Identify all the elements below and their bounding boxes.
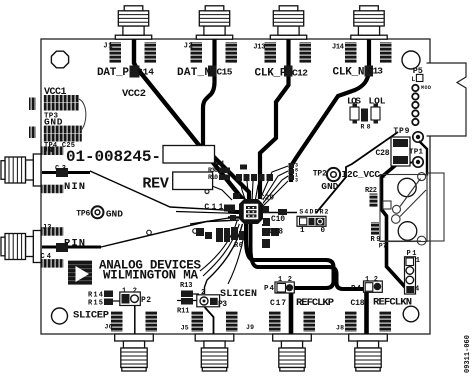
svg-text:LOL: LOL (369, 96, 386, 107)
svg-text:GND: GND (106, 209, 123, 220)
svg-text:J3: J3 (43, 224, 52, 232)
svg-text:L: L (412, 76, 416, 83)
svg-text:PIN: PIN (64, 238, 85, 250)
svg-text:CLK_P: CLK_P (255, 68, 287, 80)
svg-text:R22: R22 (365, 187, 377, 195)
svg-text:C18: C18 (269, 228, 283, 237)
svg-text:J5: J5 (181, 325, 189, 332)
svg-text:C18: C18 (351, 299, 365, 308)
svg-text:P2: P2 (141, 296, 151, 305)
svg-text:TP6: TP6 (76, 210, 90, 219)
svg-text:REFCLKN: REFCLKN (373, 297, 412, 309)
svg-text:P4: P4 (264, 285, 274, 293)
svg-text:C28: C28 (376, 149, 390, 158)
svg-text:2: 2 (201, 289, 205, 297)
svg-text:VCC2: VCC2 (122, 88, 146, 100)
svg-text:1 2: 1 2 (278, 276, 292, 284)
svg-text:R31: R31 (215, 160, 225, 167)
svg-text:J1: J1 (103, 43, 112, 51)
svg-text:J8: J8 (336, 325, 344, 332)
svg-text:TP9: TP9 (393, 127, 409, 136)
svg-text:R10: R10 (208, 174, 218, 181)
svg-text:1 2: 1 2 (365, 276, 378, 284)
svg-text:1: 1 (300, 227, 305, 235)
svg-text:I2C_VCC_: I2C_VCC_ (342, 169, 386, 180)
svg-text:J4: J4 (44, 147, 53, 155)
svg-text:CLK_N: CLK_N (333, 67, 365, 79)
svg-text:C20: C20 (260, 195, 274, 203)
svg-text:VCC1: VCC1 (44, 87, 67, 98)
svg-text:01-008245-: 01-008245- (66, 148, 161, 166)
svg-text:C17: C17 (270, 299, 286, 308)
svg-text:4: 4 (415, 286, 419, 294)
svg-text:P3: P3 (218, 300, 227, 309)
svg-text:1 2: 1 2 (122, 288, 137, 296)
svg-text:C13: C13 (368, 66, 383, 77)
svg-text:REFCLKP: REFCLKP (296, 297, 334, 309)
svg-text:R11: R11 (177, 308, 190, 316)
svg-text:R13: R13 (180, 282, 193, 290)
svg-text:S4DDR2: S4DDR2 (299, 209, 328, 216)
svg-text:MOD: MOD (421, 85, 431, 91)
svg-text:P5: P5 (413, 66, 423, 76)
svg-text:C12: C12 (292, 68, 308, 79)
svg-text:TP2: TP2 (313, 170, 327, 179)
svg-text:P4: P4 (351, 285, 361, 293)
svg-text:SLICEP: SLICEP (73, 310, 109, 322)
svg-text:J14: J14 (332, 44, 344, 52)
svg-text:DAT_N: DAT_N (177, 67, 211, 79)
svg-text:R6: R6 (234, 242, 243, 250)
svg-text:J13: J13 (253, 44, 265, 52)
svg-text:C15: C15 (217, 67, 233, 78)
svg-text:C11: C11 (204, 203, 223, 212)
svg-text:REV: REV (142, 176, 169, 193)
svg-text:J2: J2 (184, 43, 193, 51)
svg-text:J6: J6 (105, 324, 113, 331)
svg-text:R30: R30 (208, 167, 218, 174)
svg-text:SLICEN: SLICEN (220, 289, 257, 300)
svg-text:R15: R15 (88, 300, 103, 308)
svg-text:P7: P7 (379, 243, 387, 250)
svg-text:0: 0 (321, 227, 326, 235)
svg-text:NIN: NIN (64, 181, 85, 193)
svg-text:GND: GND (44, 117, 63, 128)
svg-text:C10: C10 (271, 215, 285, 224)
svg-text:3: 3 (295, 178, 298, 184)
svg-text:09311-060: 09311-060 (464, 335, 472, 373)
svg-text:WILMINGTON MA: WILMINGTON MA (103, 268, 198, 282)
svg-text:C14: C14 (137, 67, 154, 78)
svg-text:1: 1 (416, 257, 420, 265)
svg-text:J9: J9 (246, 324, 254, 331)
svg-text:DAT_P: DAT_P (97, 67, 129, 79)
svg-text:TP1: TP1 (409, 149, 423, 157)
svg-text:R14: R14 (88, 292, 103, 300)
svg-text:GND: GND (321, 181, 338, 192)
svg-text:LOS: LOS (347, 96, 361, 107)
